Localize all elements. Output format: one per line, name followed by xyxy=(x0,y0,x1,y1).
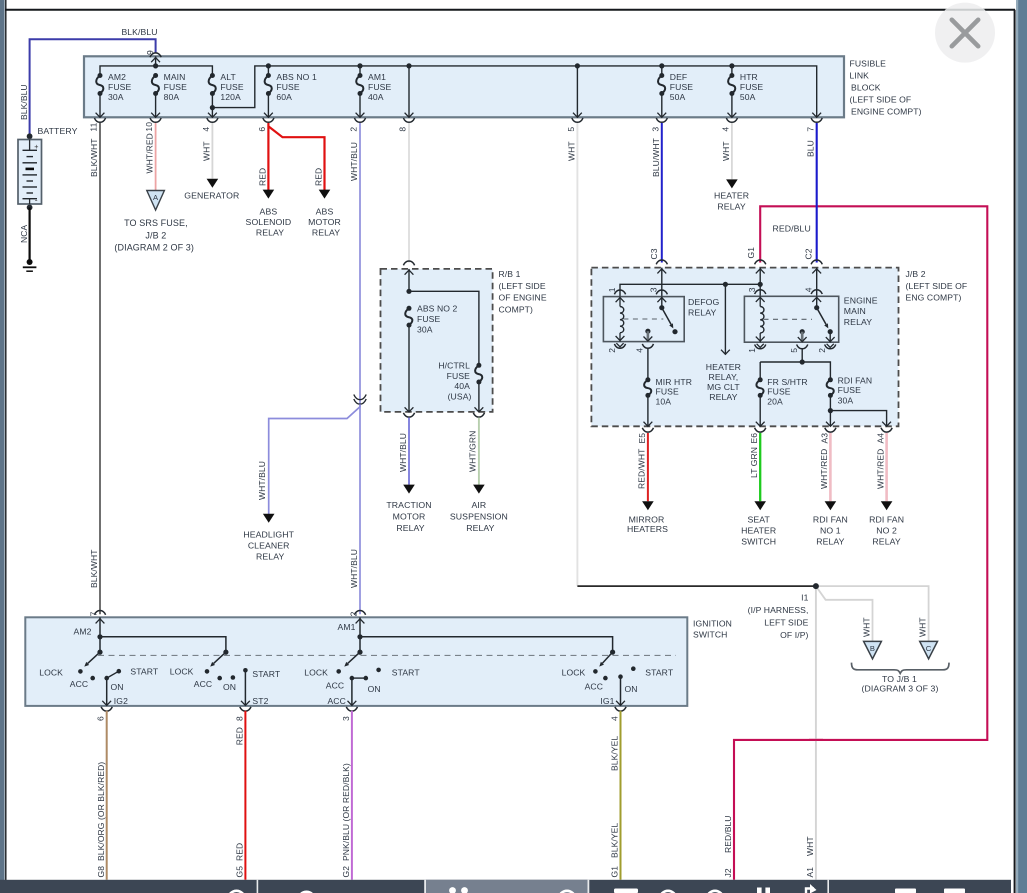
node bus at AM1 xyxy=(357,63,362,68)
R/B 1 junction box xyxy=(381,269,493,412)
arrow to rdi fan no 1 relay xyxy=(825,501,837,510)
svg-text:G8: G8 xyxy=(96,866,106,878)
toolbar separator 3 xyxy=(588,880,590,893)
svg-text:ACC: ACC xyxy=(70,679,88,689)
fuse MAIN 80A xyxy=(153,73,158,78)
svg-text:BLK/WHT: BLK/WHT xyxy=(89,550,99,588)
svg-text:HEATERS: HEATERS xyxy=(627,524,668,534)
svg-text:ALT: ALT xyxy=(220,72,236,82)
svg-text:ACC: ACC xyxy=(327,696,345,706)
ignition pin 2 bump xyxy=(354,611,365,615)
svg-text:ENGINE COMPT): ENGINE COMPT) xyxy=(851,106,922,116)
node bus at HTR xyxy=(729,63,734,68)
svg-text:GENERATOR: GENERATOR xyxy=(184,190,239,200)
svg-text:3: 3 xyxy=(650,127,660,132)
contact ACC 3 xyxy=(350,676,355,681)
fuse AM1 40A xyxy=(359,66,361,76)
svg-text:RELAY: RELAY xyxy=(717,201,745,211)
node bus at MAIN fuse xyxy=(153,63,158,68)
svg-text:WHT: WHT xyxy=(805,836,815,856)
svg-text:ON: ON xyxy=(368,684,381,694)
svg-text:WHT/BLU: WHT/BLU xyxy=(257,461,267,500)
svg-text:ENGINE: ENGINE xyxy=(844,295,878,305)
svg-text:BLOCK: BLOCK xyxy=(851,82,881,92)
svg-text:2: 2 xyxy=(349,127,359,132)
relay DEFOG pin 4 contact xyxy=(645,329,650,334)
wire WHT/BLU to traction motor relay xyxy=(408,418,410,485)
svg-text:RDI FAN: RDI FAN xyxy=(838,375,873,385)
contact ON 2 xyxy=(231,675,236,680)
fuse AM2 30A xyxy=(98,73,103,78)
brace to J/B 1 xyxy=(852,663,950,674)
splice symbol on WHT/BLU xyxy=(354,395,366,400)
arrow to headlight cleaner relay xyxy=(263,514,275,523)
svg-text:OF ENGINE: OF ENGINE xyxy=(499,293,547,303)
svg-text:WHT/RED: WHT/RED xyxy=(145,133,155,173)
node I1 xyxy=(813,583,819,589)
svg-text:LEFT SIDE: LEFT SIDE xyxy=(764,617,808,627)
toolbar icon undo xyxy=(559,891,575,893)
fusible link block box xyxy=(84,56,844,117)
svg-text:HEATER: HEATER xyxy=(714,190,749,200)
svg-text:MAIN: MAIN xyxy=(164,72,186,82)
svg-text:5: 5 xyxy=(789,348,799,353)
wire WHT/BLU pin 2 to ignition AM1 xyxy=(359,123,361,614)
svg-text:10: 10 xyxy=(144,122,154,132)
svg-text:FUSE: FUSE xyxy=(656,387,679,397)
wire WHT I1 down to A1 xyxy=(815,586,817,880)
svg-text:9: 9 xyxy=(145,50,155,55)
svg-text:(I/P HARNESS,: (I/P HARNESS, xyxy=(748,605,809,615)
svg-text:ON: ON xyxy=(110,682,123,692)
arrow to air suspension relay xyxy=(473,485,485,494)
svg-text:BLK/BLU: BLK/BLU xyxy=(19,84,29,120)
svg-text:FR S/HTR: FR S/HTR xyxy=(767,377,807,387)
relay DEFOG pin 1 bump xyxy=(614,290,625,294)
svg-text:40A: 40A xyxy=(454,381,470,391)
svg-text:RELAY: RELAY xyxy=(688,308,716,318)
bus ALT output to right fuses xyxy=(212,66,816,117)
svg-text:(LEFT SIDE OF: (LEFT SIDE OF xyxy=(906,281,968,291)
wire RED/WHT to mirror heaters xyxy=(647,433,649,501)
fuse H/CTRL 40A xyxy=(476,363,481,368)
svg-text:BLU: BLU xyxy=(806,140,816,157)
ignition switch arm 2 xyxy=(223,650,228,655)
contact ON 1 xyxy=(104,676,109,681)
arrow to generator xyxy=(207,179,219,188)
relay ENGINE MAIN pin 4 bump xyxy=(811,290,822,294)
fusible link block pin 6 bump xyxy=(263,118,274,122)
svg-text:LOCK: LOCK xyxy=(39,667,63,677)
svg-text:1: 1 xyxy=(607,287,617,292)
fuse ALT 120A xyxy=(210,73,215,78)
wire G1 entry xyxy=(759,268,761,297)
svg-text:WHT/GRN: WHT/GRN xyxy=(468,431,478,472)
svg-text:3: 3 xyxy=(649,287,659,292)
ignition pin 7 bump xyxy=(94,611,105,615)
svg-text:A3: A3 xyxy=(819,433,829,444)
svg-text:SEAT: SEAT xyxy=(747,515,770,525)
svg-text:FUSE: FUSE xyxy=(276,82,299,92)
contact START 1 xyxy=(117,669,122,674)
svg-text:CLEANER: CLEANER xyxy=(248,540,290,550)
wire BLK/BLU battery to fuse block pin 9 xyxy=(30,39,156,136)
svg-text:START: START xyxy=(645,667,674,677)
contact ON 3 xyxy=(364,676,369,681)
toolbar active segment xyxy=(426,880,588,893)
svg-text:FUSE: FUSE xyxy=(108,82,131,92)
wire WHT/GRN to air suspension relay xyxy=(478,418,480,485)
svg-text:FUSE: FUSE xyxy=(417,314,440,324)
wire ACC output xyxy=(351,678,353,706)
ignition exit bump ST2 xyxy=(240,707,251,711)
toolbar icon circle 3 xyxy=(660,891,676,893)
toolbar separator 2 xyxy=(424,880,426,893)
J/B 2 junction box xyxy=(591,268,898,427)
toolbar icon pause xyxy=(757,888,762,893)
svg-text:FUSE: FUSE xyxy=(838,385,861,395)
svg-text:50A: 50A xyxy=(670,92,686,102)
toolbar icon display xyxy=(614,889,638,893)
svg-text:(DIAGRAM 2 OF 3): (DIAGRAM 2 OF 3) xyxy=(114,243,194,253)
arrow to ABS motor relay xyxy=(319,190,331,199)
node bus at pin 5 xyxy=(575,63,580,68)
svg-text:RED/WHT: RED/WHT xyxy=(637,449,647,489)
contact ACC 4 xyxy=(603,676,608,681)
fuse FR S/HTR 20A xyxy=(758,377,763,382)
svg-text:6: 6 xyxy=(96,716,106,721)
svg-text:J2: J2 xyxy=(723,868,733,877)
contact LOCK 4 xyxy=(593,669,598,674)
svg-text:J/B 2: J/B 2 xyxy=(145,230,166,240)
svg-text:RDI FAN: RDI FAN xyxy=(813,515,848,525)
ignition switch box xyxy=(25,617,687,706)
connector triangle A to SRS fuse xyxy=(147,191,165,211)
svg-text:DEFOG: DEFOG xyxy=(688,297,720,307)
svg-text:7: 7 xyxy=(89,611,99,616)
svg-text:R/B 1: R/B 1 xyxy=(499,269,521,279)
connector triangle B xyxy=(864,641,882,658)
svg-text:(LEFT SIDE: (LEFT SIDE xyxy=(499,281,546,291)
svg-text:BATTERY: BATTERY xyxy=(38,126,78,136)
R/B 1 exit bump left xyxy=(403,413,414,417)
svg-text:MG CLT: MG CLT xyxy=(707,382,740,392)
wire BLU pin 7 to J/B 2 C2 xyxy=(816,123,818,263)
svg-text:RED/BLU: RED/BLU xyxy=(723,815,733,853)
svg-text:+: + xyxy=(34,142,38,151)
svg-text:6: 6 xyxy=(257,127,267,132)
node AM2 xyxy=(97,634,102,639)
svg-text:COMPT): COMPT) xyxy=(499,304,534,314)
wire BLK/YEL IG1 down xyxy=(620,711,622,880)
wire WHT/RED pin 10 to SRS triangle xyxy=(155,123,157,191)
ignition exit bump IG1 xyxy=(615,707,626,711)
fusible link block pin 7 bump xyxy=(811,118,822,122)
svg-text:WHT/BLU: WHT/BLU xyxy=(349,549,359,588)
svg-text:(LEFT SIDE OF: (LEFT SIDE OF xyxy=(850,94,912,104)
wire node I1 feed xyxy=(577,585,816,587)
relay DEFOG dashed line xyxy=(623,318,663,320)
node battery positive xyxy=(27,133,33,139)
fusible link block pin 4 bump xyxy=(207,118,218,122)
svg-text:C3: C3 xyxy=(649,248,659,259)
svg-text:5: 5 xyxy=(566,127,576,132)
svg-text:4: 4 xyxy=(804,287,814,292)
wire WHT/BLU branch to headlight cleaner relay xyxy=(269,404,360,514)
svg-text:PNK/BLU (OR RED/BLK): PNK/BLU (OR RED/BLK) xyxy=(341,763,351,861)
svg-text:C: C xyxy=(926,644,932,653)
toolbar icon circle 2 xyxy=(298,892,314,893)
svg-text:8: 8 xyxy=(234,716,244,721)
relay DEFOG coil xyxy=(619,297,621,307)
svg-text:RDI FAN: RDI FAN xyxy=(869,515,904,525)
svg-text:TRACTION: TRACTION xyxy=(386,500,431,510)
wire WHT pin 4 to heater relay xyxy=(731,123,733,179)
svg-text:FUSE: FUSE xyxy=(767,387,790,397)
ignition exit bump ACC xyxy=(346,707,357,711)
left window edge bar xyxy=(0,0,5,893)
J/B 2 exit bump A4 xyxy=(881,428,892,432)
svg-text:FUSE: FUSE xyxy=(670,82,693,92)
contact LOCK 1 xyxy=(78,669,83,674)
node bus at pin 8 xyxy=(406,63,411,68)
svg-text:RELAY: RELAY xyxy=(312,227,340,237)
wire RED ST2 down xyxy=(244,711,246,880)
svg-text:ON: ON xyxy=(223,682,236,692)
wire BLU/WHT pin 3 to J/B 2 C3 xyxy=(661,123,663,263)
wire pin 5 column xyxy=(576,66,578,117)
svg-text:SOLENOID: SOLENOID xyxy=(246,217,292,227)
svg-text:RELAY: RELAY xyxy=(709,392,737,402)
svg-text:3: 3 xyxy=(341,716,351,721)
ignition AM1 entry xyxy=(359,617,361,652)
wire BLK/WHT pin 11 to ignition AM2 xyxy=(99,123,101,614)
svg-text:RED: RED xyxy=(257,168,267,186)
fusible link block pin 4 bump xyxy=(726,118,737,122)
svg-text:30A: 30A xyxy=(417,324,433,334)
svg-text:IG2: IG2 xyxy=(114,696,128,706)
wire to H/CTRL fuse xyxy=(409,291,479,365)
svg-text:OF I/P): OF I/P) xyxy=(780,630,808,640)
svg-text:RELAY: RELAY xyxy=(256,552,284,562)
svg-text:ON: ON xyxy=(624,684,637,694)
fuse HTR 50A xyxy=(731,66,733,76)
svg-text:START: START xyxy=(130,667,159,677)
svg-text:NO 1: NO 1 xyxy=(820,526,841,536)
node bus G1 xyxy=(758,282,763,287)
relay DEFOG pin 2 bump xyxy=(614,344,625,348)
svg-text:1: 1 xyxy=(747,348,757,353)
fusible link block pin 3 bump xyxy=(656,118,667,122)
ignition switch arm 1 xyxy=(97,650,102,655)
svg-text:G1: G1 xyxy=(610,866,620,878)
ignition switch dashed line xyxy=(98,654,676,656)
frame right border xyxy=(1014,10,1016,893)
svg-text:ABS: ABS xyxy=(260,206,278,216)
toolbar icon circle 1 xyxy=(228,891,244,893)
contact START 3 xyxy=(376,668,381,673)
svg-text:LINK: LINK xyxy=(850,70,870,80)
svg-text:HTR: HTR xyxy=(740,72,758,82)
fusible link block pin 8 bump xyxy=(403,118,414,122)
J/B 2 entry bump C3 xyxy=(656,260,667,264)
svg-text:BLK/ORG (OR BLK/RED): BLK/ORG (OR BLK/RED) xyxy=(96,762,106,861)
battery BT1 xyxy=(18,140,42,205)
svg-text:I1: I1 xyxy=(801,593,808,603)
svg-text:AM2: AM2 xyxy=(74,627,92,637)
node AM1 xyxy=(357,634,362,639)
svg-text:(DIAGRAM 3 OF 3): (DIAGRAM 3 OF 3) xyxy=(862,683,939,693)
svg-text:7: 7 xyxy=(805,127,815,132)
contact LOCK 3 xyxy=(336,669,341,674)
wire PNK/BLU ACC down xyxy=(351,711,353,880)
wire to heater relay mg clt relay xyxy=(724,284,726,354)
svg-text:4: 4 xyxy=(635,348,645,353)
relay ENGINE MAIN box xyxy=(744,296,838,342)
svg-text:LOCK: LOCK xyxy=(304,667,328,677)
wire AM1 branch to group 4 xyxy=(360,637,613,652)
right window edge bar xyxy=(1016,0,1027,893)
wire WHT pin 5 to node I1 xyxy=(576,123,578,586)
svg-text:WHT: WHT xyxy=(566,141,576,161)
wire C2 entry xyxy=(816,268,818,297)
svg-text:4: 4 xyxy=(721,127,731,132)
svg-text:LT GRN: LT GRN xyxy=(749,447,759,478)
svg-text:ACC: ACC xyxy=(194,679,212,689)
svg-text:WHT: WHT xyxy=(721,141,731,161)
contact ON 4 xyxy=(618,674,623,679)
svg-text:-: - xyxy=(35,195,38,205)
svg-text:10A: 10A xyxy=(656,396,672,406)
svg-text:AM1: AM1 xyxy=(368,72,386,82)
svg-text:A4: A4 xyxy=(876,433,886,444)
contact START 4 xyxy=(631,666,636,671)
svg-text:A: A xyxy=(153,193,159,202)
svg-text:MIR HTR: MIR HTR xyxy=(656,377,693,387)
ignition switch arm 4 xyxy=(610,650,615,655)
svg-text:FUSE: FUSE xyxy=(220,82,243,92)
relay DEFOG box xyxy=(603,297,684,342)
svg-text:60A: 60A xyxy=(276,92,292,102)
svg-text:2: 2 xyxy=(349,611,359,616)
svg-text:RED: RED xyxy=(234,843,244,861)
svg-text:FUSE: FUSE xyxy=(164,82,187,92)
svg-text:11: 11 xyxy=(89,122,99,131)
wire WHT/RED to rdi fan no 2 relay xyxy=(885,433,888,501)
svg-text:ABS NO 1: ABS NO 1 xyxy=(276,72,317,82)
J/B 2 exit bump A3 xyxy=(825,428,836,432)
svg-text:BLK/WHT: BLK/WHT xyxy=(89,139,99,177)
contact ACC 2 xyxy=(217,676,222,681)
svg-text:G2: G2 xyxy=(341,866,351,878)
svg-text:WHT: WHT xyxy=(201,141,211,161)
frame left border xyxy=(5,0,7,893)
svg-text:ACC: ACC xyxy=(326,680,344,690)
svg-text:MOTOR: MOTOR xyxy=(393,512,426,522)
arrow to seat heater switch xyxy=(754,501,766,510)
wire WHT I1 to B triangle xyxy=(816,586,873,641)
svg-text:RELAY: RELAY xyxy=(816,537,844,547)
relay ENGINE MAIN pin 5 contact xyxy=(800,329,805,334)
svg-text:SWITCH: SWITCH xyxy=(741,537,776,547)
ignition AM2 entry xyxy=(99,617,101,652)
relay DEFOG contact xyxy=(661,297,663,308)
wire RED pin 6 to ABS solenoid relay xyxy=(267,123,269,191)
contact LOCK 2 xyxy=(205,669,210,674)
svg-text:50A: 50A xyxy=(740,92,756,102)
svg-text:WHT: WHT xyxy=(918,617,928,637)
fuse MIR HTR 10A xyxy=(647,348,649,380)
wire pin 8 column xyxy=(408,66,410,117)
wire ST2 output xyxy=(244,670,246,706)
svg-text:ST2: ST2 xyxy=(252,696,268,706)
svg-text:G1: G1 xyxy=(746,247,756,259)
wire ACC-ON bridge 3 xyxy=(352,677,366,679)
svg-text:FUSE: FUSE xyxy=(740,82,763,92)
svg-text:DEF: DEF xyxy=(670,72,688,82)
node bus heater relay branch xyxy=(723,282,728,287)
fusible link block pin 10 bump xyxy=(150,118,161,122)
wire pin 5 to fuses xyxy=(760,348,802,362)
relay ENGINE MAIN dashed line xyxy=(764,318,813,320)
J/B 2 entry bump C2 xyxy=(811,260,822,264)
svg-text:2: 2 xyxy=(817,348,827,353)
svg-text:START: START xyxy=(392,667,421,677)
toolbar icon dots xyxy=(449,887,456,893)
J/B 2 exit bump E5 xyxy=(642,428,653,432)
toolbar icon circle 4 xyxy=(707,891,723,893)
relay ENGINE MAIN pin 5 bump xyxy=(797,345,808,349)
svg-text:J/B 2: J/B 2 xyxy=(906,269,926,279)
svg-text:RELAY: RELAY xyxy=(466,523,494,533)
svg-text:WHT/RED: WHT/RED xyxy=(819,449,829,489)
relay ENGINE MAIN pin 2 exit xyxy=(829,332,831,343)
svg-text:WHT/BLU: WHT/BLU xyxy=(398,433,408,472)
svg-text:RELAY: RELAY xyxy=(844,317,872,327)
wire RDI FAN to A4 xyxy=(830,411,886,427)
svg-text:WHT: WHT xyxy=(862,617,872,637)
arrow to ABS solenoid relay xyxy=(263,190,275,199)
node RDI FAN output tee xyxy=(828,408,833,413)
svg-text:BLK/YEL: BLK/YEL xyxy=(610,736,620,771)
svg-text:20A: 20A xyxy=(767,396,783,406)
toolbar icon share xyxy=(806,889,814,893)
svg-text:LOCK: LOCK xyxy=(170,667,194,677)
close button xyxy=(935,3,995,63)
toolbar separator 1 xyxy=(257,880,259,893)
svg-text:ABS NO 2: ABS NO 2 xyxy=(417,303,458,313)
node bus at ABS NO 1 xyxy=(266,63,271,68)
ignition exit bump IG2 xyxy=(101,707,112,711)
wire WHT pin 4 to generator xyxy=(211,123,213,179)
wire RED/BLU crossing patch xyxy=(809,739,823,741)
relay DEFOG pin 4 bump xyxy=(642,344,653,348)
svg-text:RED: RED xyxy=(234,727,244,745)
relay ENGINE MAIN contact xyxy=(816,296,818,307)
bus from pin 9 to AM2/MAIN/ALT fuses xyxy=(100,66,212,76)
svg-text:120A: 120A xyxy=(220,92,241,102)
svg-text:RED: RED xyxy=(314,168,324,186)
svg-text:HEATER: HEATER xyxy=(741,526,776,536)
wire C3 entry xyxy=(661,268,663,297)
svg-text:AM1: AM1 xyxy=(338,622,356,632)
svg-text:NO 2: NO 2 xyxy=(876,526,897,536)
wire WHT I1 to C triangle xyxy=(816,586,929,641)
wire IG2 output xyxy=(106,678,108,706)
svg-text:RELAY: RELAY xyxy=(396,523,424,533)
svg-text:START: START xyxy=(252,669,281,679)
fusible link block pin 5 bump xyxy=(572,118,583,122)
